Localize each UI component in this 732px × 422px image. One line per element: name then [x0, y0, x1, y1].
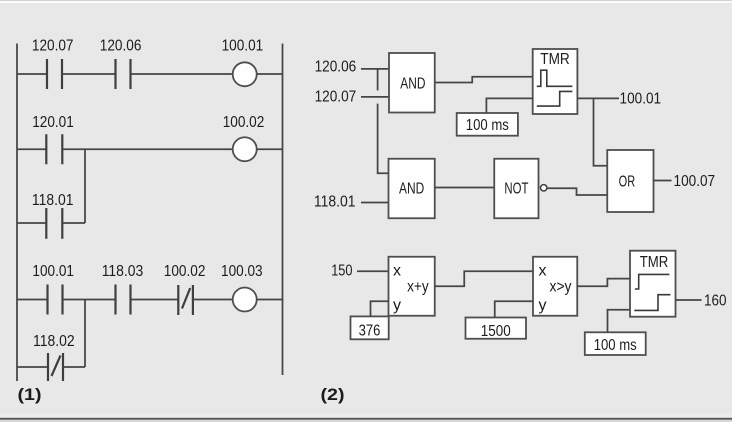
- wire 120.06 input: [361, 68, 389, 70]
- wire: [62, 148, 232, 150]
- contact 118.01: [46, 208, 62, 239]
- wire TMR1 output: [577, 97, 619, 99]
- bottom footer strip: [0, 420, 732, 422]
- right power rail: [282, 44, 284, 376]
- TMR2 output step waveform: [634, 295, 670, 311]
- contact 100.01: [48, 285, 63, 315]
- contact 120.07: [47, 59, 62, 89]
- svg-text:x: x: [393, 263, 401, 280]
- wire OR output: [654, 180, 672, 182]
- svg-text:120.01: 120.01: [32, 114, 74, 131]
- svg-text:118.03: 118.03: [102, 263, 144, 280]
- svg-text:x>y: x>y: [550, 278, 572, 295]
- TMR block U6: [630, 251, 676, 317]
- wire coil to rail: [257, 299, 283, 301]
- svg-text:120.07: 120.07: [32, 38, 74, 55]
- wire 150 input: [357, 270, 389, 272]
- wire coil to rail: [257, 73, 283, 75]
- TMR2 input step waveform: [635, 274, 670, 289]
- svg-text:100.02: 100.02: [164, 263, 206, 280]
- wire 376 to adder y: [371, 301, 389, 316]
- contact 120.06: [116, 59, 131, 89]
- svg-text:(2): (2): [321, 385, 345, 404]
- svg-text:100 ms: 100 ms: [466, 117, 509, 134]
- svg-text:y: y: [393, 297, 401, 314]
- value box 100 ms (top): [457, 113, 518, 136]
- wire TMR2 output: [676, 299, 702, 301]
- svg-text:120.07: 120.07: [315, 88, 357, 105]
- wire: [193, 299, 233, 301]
- svg-text:120.06: 120.06: [100, 38, 142, 55]
- wire adder to comparator: [435, 271, 533, 286]
- wire 100ms to TMR1: [486, 98, 532, 113]
- wire 100ms to TMR2: [608, 310, 631, 333]
- branch vertical rung2: [84, 149, 86, 223]
- comparator block x>y: [533, 257, 577, 316]
- svg-text:118.01: 118.01: [314, 193, 356, 210]
- bottom light strip above rule: [0, 414, 732, 418]
- top white strip: [0, 0, 732, 3]
- rung 2 wire: rail to contact 120.01: [17, 148, 46, 150]
- rung 3 wire: rail to contact 100.01: [17, 299, 48, 301]
- rung 1 wire: rail to contact 120.07: [17, 73, 47, 75]
- svg-text:100.01: 100.01: [620, 90, 662, 107]
- svg-text:y: y: [539, 297, 547, 314]
- svg-text:100.03: 100.03: [221, 263, 263, 280]
- svg-text:AND: AND: [399, 180, 424, 197]
- wire: [131, 299, 179, 301]
- wire 118.01 input: [361, 202, 389, 204]
- svg-text:118.02: 118.02: [33, 333, 75, 350]
- svg-text:150: 150: [331, 263, 352, 280]
- value box 1500: [466, 318, 527, 339]
- svg-text:TMR: TMR: [640, 254, 669, 271]
- wire: [62, 73, 116, 75]
- TMR1 output step waveform: [537, 91, 573, 106]
- TMR1 input pulse waveform: [537, 70, 573, 86]
- wire AND2 to NOT: [435, 187, 495, 189]
- adder block x+y: [389, 257, 435, 316]
- value box 100 ms (bottom): [585, 332, 646, 355]
- svg-text:OR: OR: [619, 173, 636, 190]
- TMR block U2: [533, 49, 578, 114]
- left power rail: [16, 44, 18, 382]
- wire: [63, 299, 116, 301]
- branch wire to junction: [62, 222, 85, 224]
- branch wire upper segment: [377, 69, 379, 91]
- svg-text:118.01: 118.01: [32, 192, 74, 209]
- AND block U1: [389, 53, 435, 113]
- AND block U3: [389, 159, 435, 219]
- branch wire lower segment: [378, 104, 389, 174]
- NC contact 118.02: [48, 353, 63, 381]
- value box 376: [351, 316, 389, 339]
- svg-text:x+y: x+y: [407, 278, 429, 295]
- svg-text:x: x: [539, 263, 547, 280]
- svg-text:376: 376: [359, 322, 381, 339]
- svg-text:1500: 1500: [481, 323, 511, 340]
- svg-text:120.06: 120.06: [315, 58, 357, 75]
- NC contact 100.02: [178, 285, 193, 315]
- svg-text:100.07: 100.07: [674, 173, 716, 190]
- svg-text:100.01: 100.01: [32, 263, 74, 280]
- OR block U5: [607, 150, 653, 212]
- bottom dark rule: [0, 418, 732, 420]
- svg-text:100.01: 100.01: [222, 38, 264, 55]
- branch vertical rung3: [84, 300, 86, 368]
- coil 100.02: [233, 137, 257, 161]
- wire NOT to OR: [547, 188, 607, 195]
- contact 118.03: [116, 285, 131, 315]
- svg-text:100.02: 100.02: [223, 114, 265, 131]
- wire 1500 to comparator y: [495, 301, 533, 317]
- coil 100.03: [233, 288, 257, 312]
- branch wire 118.02: [17, 366, 48, 368]
- wire 120.07 input: [361, 96, 389, 98]
- svg-text:NOT: NOT: [504, 180, 528, 197]
- NOT block U4: [494, 159, 538, 219]
- svg-text:AND: AND: [400, 75, 425, 92]
- wire: [131, 73, 233, 75]
- svg-text:TMR: TMR: [540, 51, 570, 68]
- branch wire 118.01: [17, 222, 46, 224]
- wire coil to rail: [257, 148, 283, 150]
- NOT inversion bubble: [541, 185, 547, 191]
- svg-text:(1): (1): [18, 385, 42, 404]
- svg-text:100 ms: 100 ms: [594, 337, 637, 354]
- top hairline: [0, 0, 732, 1]
- svg-text:160: 160: [704, 293, 727, 310]
- contact 120.01: [46, 134, 62, 164]
- wire comparator to TMR2: [577, 279, 630, 287]
- coil 100.01: [233, 62, 257, 86]
- wire branch to OR: [594, 98, 608, 165]
- wire AND1 to TMR1: [435, 77, 533, 83]
- branch wire to junction: [63, 366, 85, 368]
